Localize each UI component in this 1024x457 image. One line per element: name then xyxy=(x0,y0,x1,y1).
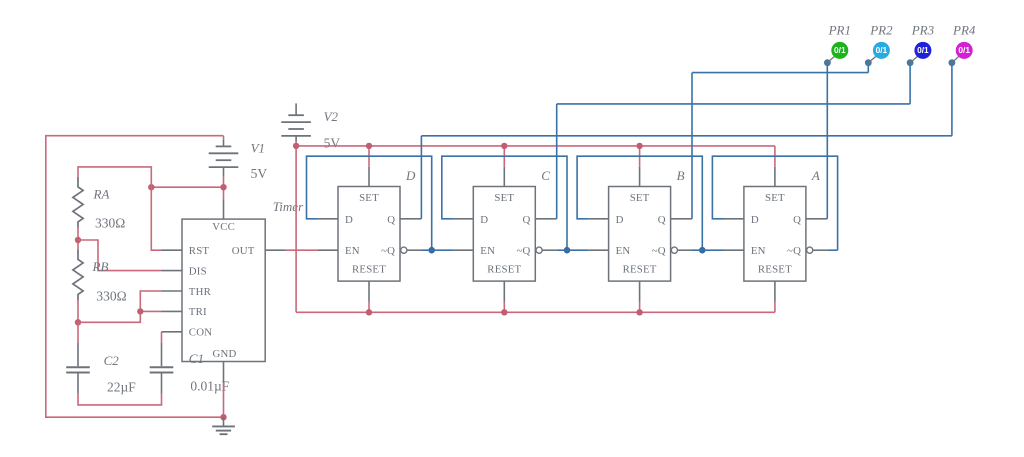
svg-text:C: C xyxy=(541,168,550,183)
wire Q UD to probe PR4 xyxy=(420,136,422,219)
probe PR4 circle xyxy=(956,42,973,59)
wire SET UA to 5V rail xyxy=(774,146,776,167)
probe PR4 lead xyxy=(952,56,959,62)
wire PR4 drop xyxy=(951,63,953,136)
pin ~Q bubble UD xyxy=(401,247,407,253)
svg-text:D: D xyxy=(751,214,759,226)
svg-text:DIS: DIS xyxy=(189,265,207,277)
svg-text:V1: V1 xyxy=(251,141,265,156)
wire Q-B to PR2 horizontal xyxy=(692,72,868,74)
pin ~Q stub UA xyxy=(813,249,828,251)
wire ~Q to D feedback loop UC xyxy=(442,156,567,250)
wire Q-D to PR4 horizontal xyxy=(421,135,952,137)
probe PR2 tip dot xyxy=(865,59,872,66)
pin EN stub UD xyxy=(318,249,338,251)
svg-text:0/1: 0/1 xyxy=(958,45,970,55)
svg-text:TRI: TRI xyxy=(189,306,207,318)
svg-text:RESET: RESET xyxy=(487,263,521,275)
wire RESET UD to reset rail xyxy=(368,302,370,312)
svg-text:EN: EN xyxy=(480,245,495,257)
flip-flop UC body xyxy=(473,187,535,282)
pin D stub UB xyxy=(588,218,608,220)
junction reset rail at UB xyxy=(636,309,642,315)
svg-text:D: D xyxy=(616,214,624,226)
flip-flop UB body xyxy=(609,187,671,282)
pin ~Q bubble UB xyxy=(671,247,677,253)
svg-text:CON: CON xyxy=(189,327,212,339)
svg-text:PR1: PR1 xyxy=(828,22,851,37)
wire ~Q UB to EN UA xyxy=(692,249,724,251)
pin SET stub UD xyxy=(368,167,370,187)
svg-text:THR: THR xyxy=(189,286,212,298)
wire V1 negative to ground rail (outer red loop) xyxy=(46,136,224,418)
wire TRI stub connection xyxy=(140,310,161,312)
svg-text:0/1: 0/1 xyxy=(917,45,929,55)
svg-text:D: D xyxy=(480,214,488,226)
wire C2 bottom to C1 bottom xyxy=(78,394,162,405)
svg-text:Q: Q xyxy=(387,214,395,226)
probe PR3 circle xyxy=(914,42,931,59)
wire 555 OUT to clock xyxy=(286,249,318,251)
junction RA/RB/DIS xyxy=(75,237,81,243)
svg-text:SET: SET xyxy=(359,192,379,204)
wire SET UD to 5V rail xyxy=(368,146,370,167)
wire GND pin to ground xyxy=(223,383,225,418)
probe PR2 lead xyxy=(868,56,876,62)
wire RA-RB junction xyxy=(77,228,79,250)
wire RB bottom to C2 xyxy=(77,300,79,322)
probe PR2 circle xyxy=(873,42,890,59)
resistor RB xyxy=(73,249,83,300)
wire SET UB to 5V rail xyxy=(639,146,641,167)
wire DIS connection xyxy=(78,240,162,271)
wire ~Q UC to EN UB xyxy=(557,249,589,251)
svg-text:PR4: PR4 xyxy=(952,22,976,37)
wire RESET UA to reset rail xyxy=(774,302,776,312)
pin DIS stub xyxy=(162,270,183,272)
wire reset rail xyxy=(296,311,775,313)
wire Q UB to probe PR2 xyxy=(691,73,693,219)
pin ~Q bubble UA xyxy=(807,247,813,253)
pin THR stub xyxy=(162,290,183,292)
resistor RA xyxy=(73,177,83,228)
pin ~Q stub UD xyxy=(407,249,422,251)
wire Q UA to probe PR1 xyxy=(826,63,828,219)
pin EN stub UB xyxy=(588,249,608,251)
pin ~Q stub UC xyxy=(542,249,557,251)
pin ~Q bubble UC xyxy=(536,247,542,253)
wire RESET UB to reset rail xyxy=(639,302,641,312)
pin EN stub UA xyxy=(724,249,744,251)
junction feedback at ~Q UC xyxy=(564,247,571,254)
svg-text:RA: RA xyxy=(93,186,110,201)
probe PR3 tip dot xyxy=(907,59,914,66)
pin D stub UA xyxy=(724,218,744,220)
svg-text:RST: RST xyxy=(189,245,210,257)
pin RST stub xyxy=(162,249,183,251)
svg-text:SET: SET xyxy=(765,192,785,204)
junction V1/VCC xyxy=(220,184,226,190)
pin SET stub UC xyxy=(503,167,505,187)
svg-text:EN: EN xyxy=(616,245,631,257)
wire RESET UC to reset rail xyxy=(503,302,505,312)
svg-text:330Ω: 330Ω xyxy=(95,216,125,231)
pin RESET stub UD xyxy=(368,281,370,302)
svg-text:5V: 5V xyxy=(251,166,268,181)
svg-text:RESET: RESET xyxy=(623,263,657,275)
pin D stub UC xyxy=(453,218,473,220)
wire PR3 drop xyxy=(909,63,911,104)
pin RESET stub UA xyxy=(774,281,776,302)
svg-text:D: D xyxy=(405,168,416,183)
wire RST node to V1 node xyxy=(151,186,223,188)
pin Q stub UB xyxy=(671,218,692,220)
junction 5V rail at UC xyxy=(501,143,507,149)
svg-text:Q: Q xyxy=(523,214,531,226)
pin Q stub UD xyxy=(400,218,421,220)
wire V2 to reset rail xyxy=(295,146,297,312)
junction 5V rail at V2 xyxy=(293,143,299,149)
wire ~Q UA to feedback corner xyxy=(827,249,837,251)
svg-text:RESET: RESET xyxy=(758,263,792,275)
pin TRI stub xyxy=(162,310,183,312)
probe PR4 tip dot xyxy=(949,59,956,66)
svg-text:RESET: RESET xyxy=(352,263,386,275)
svg-text:EN: EN xyxy=(751,245,766,257)
pin VCC stub xyxy=(223,200,225,220)
svg-text:PR2: PR2 xyxy=(869,22,893,37)
wire V2 to 5V rail xyxy=(295,142,297,146)
capacitor C2 xyxy=(77,343,79,366)
junction 5V rail at UD xyxy=(366,143,372,149)
svg-text:B: B xyxy=(677,168,685,183)
svg-text:Q: Q xyxy=(793,214,801,226)
wire ~Q to D feedback loop UB xyxy=(577,156,702,250)
svg-text:V2: V2 xyxy=(324,109,339,124)
wire Q-C to PR3 horizontal xyxy=(557,103,910,105)
junction reset rail at UC xyxy=(501,309,507,315)
wire C2 top lead xyxy=(77,322,79,343)
battery V1 xyxy=(223,136,225,140)
svg-text:22µF: 22µF xyxy=(107,379,136,394)
wire THR to TRI jog xyxy=(78,291,162,322)
pin RESET stub UC xyxy=(503,281,505,302)
pin Q stub UC xyxy=(535,218,556,220)
flip-flop UA body xyxy=(744,187,806,282)
pin OUT stub xyxy=(265,249,286,251)
svg-text:~Q: ~Q xyxy=(652,245,666,257)
wire Q UC to probe PR3 xyxy=(556,104,558,219)
svg-text:PR3: PR3 xyxy=(911,22,935,37)
svg-text:GND: GND xyxy=(213,348,237,360)
flip-flop UD body xyxy=(338,187,400,282)
wire ~Q UD to EN UC xyxy=(421,249,453,251)
svg-text:D: D xyxy=(345,214,353,226)
pin RESET stub UB xyxy=(639,281,641,302)
svg-text:0/1: 0/1 xyxy=(834,45,846,55)
wire 5V rail xyxy=(296,145,775,147)
wire V1 positive to VCC xyxy=(223,177,225,200)
junction THR/TRI xyxy=(137,308,143,314)
svg-text:C2: C2 xyxy=(104,353,120,368)
svg-text:VCC: VCC xyxy=(212,221,235,233)
svg-text:~Q: ~Q xyxy=(787,245,801,257)
battery V2 xyxy=(295,103,297,115)
wire ~Q to D feedback loop UA xyxy=(712,156,837,250)
ground symbol xyxy=(223,417,225,426)
junction reset rail at UD xyxy=(366,309,372,315)
pin EN stub UC xyxy=(453,249,473,251)
svg-text:~Q: ~Q xyxy=(381,245,395,257)
svg-text:SET: SET xyxy=(630,192,650,204)
wire CON to C1 xyxy=(161,332,163,343)
svg-text:Q: Q xyxy=(658,214,666,226)
junction RB/C2/TRI xyxy=(75,319,81,325)
svg-text:EN: EN xyxy=(345,245,360,257)
timer U1 (555) body xyxy=(182,219,265,361)
svg-text:5V: 5V xyxy=(324,135,341,150)
probe PR3 lead xyxy=(910,56,918,62)
pin SET stub UB xyxy=(639,167,641,187)
capacitor C1 xyxy=(161,343,163,366)
svg-text:C1: C1 xyxy=(189,351,204,366)
svg-text:RB: RB xyxy=(92,259,109,274)
probe PR1 lead xyxy=(827,56,834,62)
junction 5V rail at UB xyxy=(636,143,642,149)
svg-text:SET: SET xyxy=(494,192,514,204)
junction feedback at ~Q UD xyxy=(428,247,435,254)
svg-text:OUT: OUT xyxy=(232,245,255,257)
wire PR2 drop xyxy=(867,63,869,73)
pin ~Q stub UB xyxy=(678,249,693,251)
pin GND stub xyxy=(223,362,225,383)
pin D stub UD xyxy=(318,218,338,220)
wire ~Q to D feedback loop UD xyxy=(307,156,432,250)
svg-text:0/1: 0/1 xyxy=(876,45,888,55)
wire RA top to RST xyxy=(78,167,162,250)
svg-text:A: A xyxy=(811,168,820,183)
pin SET stub UA xyxy=(774,167,776,187)
junction ground node xyxy=(220,414,226,420)
svg-text:330Ω: 330Ω xyxy=(96,288,126,303)
probe PR1 circle xyxy=(831,42,848,59)
svg-text:Timer: Timer xyxy=(273,199,304,214)
wire SET UC to 5V rail xyxy=(503,146,505,167)
junction RST branch xyxy=(148,184,154,190)
probe PR1 tip dot xyxy=(824,59,831,66)
junction feedback at ~Q UB xyxy=(699,247,706,254)
pin CON stub xyxy=(162,331,183,333)
svg-text:~Q: ~Q xyxy=(516,245,530,257)
pin Q stub UA xyxy=(806,218,827,220)
